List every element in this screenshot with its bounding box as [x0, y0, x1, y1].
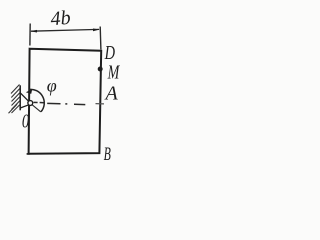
bottom edge overshoot: [27, 153, 30, 155]
dimension extension line left: [29, 24, 31, 46]
dimension arrow left: [30, 30, 37, 33]
svg-text:B: B: [104, 145, 112, 165]
svg-text:M: M: [107, 61, 120, 83]
svg-text:A: A: [104, 83, 119, 105]
dimension extension line right: [99, 27, 102, 50]
pivot bracket triangle: [20, 93, 29, 108]
svg-text:D: D: [104, 41, 116, 64]
dimension arrow right: [93, 29, 100, 32]
wall hatching: [9, 85, 21, 114]
wall line of support: [19, 85, 21, 110]
dimension line 4b: [31, 29, 99, 31]
arc arrowhead: [26, 89, 32, 94]
svg-text:φ: φ: [47, 76, 57, 96]
centerline O-A (dash-dot): [34, 102, 104, 104]
plate outline (rectangle O-D-B): [29, 49, 102, 154]
paper background: [0, 0, 128, 175]
angle arc φ: [29, 89, 45, 111]
svg-text:0: 0: [22, 109, 29, 132]
rotation radius line: [32, 105, 41, 112]
svg-text:4b: 4b: [50, 7, 71, 30]
pivot hinge circle O: [28, 101, 33, 106]
point M (dot): [98, 67, 103, 72]
